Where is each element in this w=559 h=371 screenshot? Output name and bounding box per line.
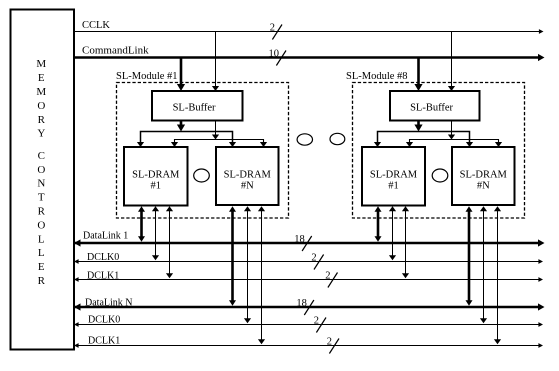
svg-text:SL-Module #8: SL-Module #8 (346, 71, 408, 82)
svg-text:CommandLink: CommandLink (82, 45, 149, 57)
svg-text:O: O (37, 219, 45, 231)
svg-text:SL-Module #1: SL-Module #1 (116, 71, 178, 82)
svg-text:DCLK0: DCLK0 (88, 315, 120, 326)
svg-text:DataLink 1: DataLink 1 (83, 231, 128, 242)
svg-text:18: 18 (296, 298, 307, 309)
svg-text:#1: #1 (388, 181, 399, 192)
svg-text:#N: #N (477, 181, 490, 192)
svg-text:2: 2 (327, 336, 332, 347)
svg-text:R: R (38, 275, 46, 287)
svg-text:O: O (37, 100, 45, 112)
svg-text:2: 2 (311, 252, 316, 263)
svg-text:C: C (38, 150, 45, 162)
svg-text:E: E (38, 261, 45, 273)
svg-text:M: M (36, 86, 46, 98)
svg-text:SL-DRAM: SL-DRAM (224, 169, 272, 180)
svg-text:L: L (38, 247, 45, 259)
svg-text:M: M (36, 58, 46, 70)
svg-text:L: L (38, 233, 45, 245)
svg-text:R: R (38, 206, 46, 218)
svg-text:SL-Buffer: SL-Buffer (173, 103, 216, 114)
svg-text:#1: #1 (151, 181, 162, 192)
svg-text:Y: Y (37, 128, 45, 140)
svg-text:O: O (37, 164, 45, 176)
svg-text:2: 2 (314, 315, 319, 326)
svg-text:CCLK: CCLK (82, 20, 110, 31)
svg-text:N: N (37, 178, 45, 190)
svg-text:2: 2 (270, 22, 275, 33)
svg-text:E: E (38, 72, 45, 84)
svg-text:SL-DRAM: SL-DRAM (460, 169, 508, 180)
svg-text:DCLK1: DCLK1 (88, 336, 120, 347)
svg-text:DCLK0: DCLK0 (87, 252, 119, 263)
svg-text:10: 10 (269, 48, 280, 59)
svg-text:SL-Buffer: SL-Buffer (410, 103, 453, 114)
svg-text:SL-DRAM: SL-DRAM (370, 169, 418, 180)
svg-text:SL-DRAM: SL-DRAM (132, 169, 180, 180)
svg-text:#N: #N (241, 181, 254, 192)
svg-text:T: T (38, 192, 45, 204)
svg-text:18: 18 (294, 234, 305, 245)
svg-text:R: R (38, 114, 46, 126)
svg-text:2: 2 (325, 270, 330, 281)
svg-text:DataLink N: DataLink N (85, 298, 133, 309)
svg-text:DCLK1: DCLK1 (87, 270, 119, 281)
